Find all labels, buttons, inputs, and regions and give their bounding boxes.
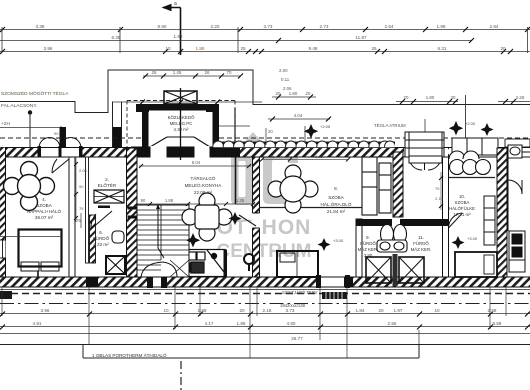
interior wall A — [69, 157, 89, 277]
wall tarsalgo/szoba8 — [252, 157, 261, 287]
svg-text:1.88: 1.88 — [198, 308, 207, 313]
wall szoba8/furdo9 — [356, 219, 362, 287]
door arc room4 — [52, 159, 69, 173]
bed szoba8 — [277, 251, 318, 277]
bump-out upper dim line — [143, 70, 243, 79]
svg-text:6.38: 6.38 — [112, 35, 121, 40]
svg-text:MELEG.PC: MELEG.PC — [170, 121, 193, 126]
svg-text:4.17: 4.17 — [205, 321, 214, 326]
text tarsalgo — [185, 175, 223, 195]
svg-text:3.73: 3.73 — [264, 24, 273, 29]
svg-text:90: 90 — [141, 198, 146, 203]
svg-text:MELEG.KONYHA: MELEG.KONYHA — [185, 183, 223, 188]
svg-text:2.84: 2.84 — [490, 24, 499, 29]
svg-text:TÉGLA ATRIUM: TÉGLA ATRIUM — [374, 123, 406, 128]
niche beam line szoba8 — [260, 207, 363, 209]
shower box 1 — [366, 257, 391, 283]
svg-text:SZOBA: SZOBA — [455, 200, 470, 205]
svg-text:SZOBA: SZOBA — [36, 203, 53, 208]
svg-text:+2.05: +2.05 — [320, 124, 331, 129]
balcony dashed line — [0, 137, 142, 139]
svg-text:9.: 9. — [366, 235, 370, 240]
svg-text:75: 75 — [435, 186, 440, 191]
svg-text:KÖZLEKEDŐ: KÖZLEKEDŐ — [168, 115, 195, 120]
room4 partition line — [0, 236, 62, 238]
svg-text:1.86: 1.86 — [237, 321, 246, 326]
svg-text:20: 20 — [378, 308, 384, 313]
text szoba10 — [449, 194, 475, 217]
svg-text:HÁL.ÓRA.DLÓ: HÁL.ÓRA.DLÓ — [321, 201, 352, 207]
svg-text:4.32 m²: 4.32 m² — [93, 242, 109, 247]
svg-text:11.: 11. — [418, 235, 424, 240]
dim labels line 2 — [112, 35, 367, 40]
svg-text:1.88: 1.88 — [437, 24, 446, 29]
svg-text:4.80: 4.80 — [287, 321, 296, 326]
table chairs room4 — [4, 162, 55, 211]
svg-text:1 OBLAS POROTHERM ÁTHIDALÓ: 1 OBLAS POROTHERM ÁTHIDALÓ — [92, 352, 167, 358]
bump-out dim line — [112, 100, 262, 105]
svg-text:2.05: 2.05 — [79, 168, 88, 173]
svg-text:2.00: 2.00 — [279, 68, 288, 73]
svg-text:MÁZ KER.: MÁZ KER. — [358, 247, 379, 252]
svg-text:2.56: 2.56 — [388, 321, 397, 326]
svg-text:25: 25 — [240, 46, 246, 51]
stair head triangle — [164, 91, 197, 104]
right room door arc — [508, 180, 522, 194]
top wall black middle section — [131, 146, 240, 158]
star markers — [304, 124, 318, 138]
svg-text:1.87: 1.87 — [394, 308, 403, 313]
star labels — [320, 121, 478, 243]
wardrobe circles szoba10 — [449, 151, 491, 175]
svg-text:2.18: 2.18 — [315, 154, 324, 159]
node column marker — [28, 110, 32, 147]
svg-text:SZINTJÁRÓ TERV: SZINTJÁRÓ TERV — [282, 290, 318, 295]
svg-text:FÜRDŐ: FÜRDŐ — [360, 241, 376, 246]
tall cabinet szoba10 — [484, 196, 495, 245]
line below band — [0, 289, 530, 291]
bed szoba10 — [455, 252, 497, 277]
svg-text:6.: 6. — [99, 230, 103, 235]
right room side wall — [507, 157, 509, 231]
svg-text:+2H: +2H — [1, 121, 10, 127]
svg-text:21.84 m²: 21.84 m² — [327, 209, 346, 214]
text eloter — [98, 177, 117, 188]
window right 2 — [452, 138, 498, 155]
text furdo6 — [93, 230, 110, 247]
wardrobe cabinet szoba8 — [362, 157, 391, 215]
svg-text:1.93: 1.93 — [174, 34, 183, 39]
extension verticals top — [2, 27, 528, 148]
stair dim row — [137, 198, 255, 206]
niche line szoba10 — [449, 177, 496, 179]
shelf unit right of cabinet — [409, 132, 442, 163]
bump-out door leaves — [150, 137, 210, 147]
dim labels line 1 — [36, 24, 499, 39]
wall szoba8/bath column — [393, 152, 403, 217]
washbasin bath6 — [112, 231, 124, 243]
interior wall B hatch — [90, 215, 96, 263]
door arc bath6 — [91, 211, 112, 229]
svg-text:9.48: 9.48 — [309, 46, 318, 51]
right top small dims — [272, 91, 530, 104]
svg-text:2.18: 2.18 — [263, 308, 272, 313]
svg-text:1.45: 1.45 — [173, 70, 182, 75]
text furdo11 — [411, 235, 432, 252]
svg-text:MÁZ KER.: MÁZ KER. — [411, 247, 432, 252]
svg-text:75: 75 — [79, 206, 84, 211]
shower box 2 — [399, 257, 424, 283]
svg-text:30: 30 — [451, 95, 456, 100]
dim line 5.04 tarsalgo — [139, 160, 251, 168]
svg-text:4.04: 4.04 — [294, 113, 303, 118]
svg-text:20: 20 — [500, 46, 506, 51]
railing dashed line — [0, 293, 530, 295]
svg-text:10: 10 — [165, 46, 171, 51]
svg-text:20: 20 — [404, 95, 409, 100]
text szoba8 — [321, 186, 352, 214]
svg-text:TÁRSALGÓ: TÁRSALGÓ — [190, 175, 215, 181]
pier A left — [60, 127, 67, 147]
ledge line left — [0, 127, 61, 129]
stairs — [137, 204, 189, 277]
ledge line mid — [213, 125, 250, 127]
dimension line 2 — [0, 38, 474, 43]
scalloped arcade strip — [213, 141, 396, 152]
svg-text:1.84: 1.84 — [356, 308, 365, 313]
door symbol q — [244, 254, 254, 271]
right mini dim 4.04 — [268, 113, 331, 122]
svg-text:20: 20 — [239, 308, 245, 313]
dimension line 1 — [0, 27, 530, 32]
annotation text left — [1, 90, 69, 127]
svg-text:+2.00: +2.00 — [465, 121, 476, 126]
door leaf tarsalgo — [239, 215, 256, 226]
bed room4 — [19, 230, 62, 278]
svg-text:85: 85 — [270, 154, 275, 159]
section arrow top — [163, 1, 181, 160]
svg-text:20: 20 — [306, 91, 311, 96]
dim chain szoba10 — [435, 172, 444, 210]
dimension line 3 — [0, 49, 530, 54]
svg-text:10: 10 — [163, 308, 169, 313]
svg-text:1.35: 1.35 — [236, 198, 245, 203]
centerline dash-dot — [0, 303, 530, 305]
svg-text:17.21 m²: 17.21 m² — [453, 212, 471, 217]
svg-text:36.07 m²: 36.07 m² — [35, 215, 54, 220]
bottom dimension line 2 — [0, 325, 530, 330]
svg-text:90: 90 — [54, 131, 59, 136]
svg-text:2.06: 2.06 — [283, 86, 292, 91]
table chairs tarsalgo — [182, 193, 232, 241]
bottom wall band — [0, 277, 530, 288]
table chairs szoba8 — [268, 165, 318, 213]
text KOZLEKEDO — [168, 115, 195, 132]
svg-text:75: 75 — [76, 218, 81, 223]
svg-text:10: 10 — [434, 308, 440, 313]
elevator shaft — [106, 256, 125, 274]
bottom dimension line 3 — [0, 333, 530, 335]
star marker tarsalgo — [186, 233, 200, 247]
door posts left — [38, 146, 83, 158]
svg-text:SZOBA: SZOBA — [328, 195, 345, 200]
svg-text:3.96: 3.96 — [44, 46, 53, 51]
kitchen wall stub — [224, 250, 228, 279]
right room fixtures top — [508, 145, 522, 158]
svg-text:3.96: 3.96 — [41, 308, 50, 313]
mini dim szoba8 — [260, 154, 350, 162]
outdoor stair middle — [322, 292, 347, 299]
svg-text:20: 20 — [276, 91, 281, 96]
svg-text:11.87: 11.87 — [355, 35, 367, 40]
svg-text:4.91: 4.91 — [33, 321, 42, 326]
svg-text:2.64: 2.64 — [385, 24, 394, 29]
bottom dim labels 2 — [33, 321, 502, 326]
svg-text:26.77: 26.77 — [291, 336, 303, 341]
svg-text:10.: 10. — [459, 194, 465, 199]
top wall band — [0, 147, 530, 158]
svg-text:2.: 2. — [105, 177, 109, 182]
svg-text:ELŐTÉR: ELŐTÉR — [98, 182, 117, 188]
small dim szoba8 — [266, 128, 273, 145]
text furdo9 — [358, 235, 379, 258]
svg-text:2.73: 2.73 — [320, 24, 329, 29]
dim chain wall A — [74, 158, 88, 222]
svg-text:20: 20 — [268, 129, 273, 134]
svg-text:2.20: 2.20 — [211, 24, 220, 29]
svg-text:+3.00: +3.00 — [467, 236, 478, 241]
svg-text:NAPPALI+HÁLÓ: NAPPALI+HÁLÓ — [27, 208, 62, 214]
pillar line tarsalgo — [235, 157, 237, 204]
left exterior wall — [0, 148, 6, 288]
dim labels line 3 — [44, 46, 506, 51]
svg-text:26: 26 — [152, 70, 157, 75]
pier B left — [113, 102, 122, 148]
svg-text:2.58: 2.58 — [488, 308, 497, 313]
svg-text:+3.00: +3.00 — [333, 238, 344, 243]
dashed void outline — [127, 101, 235, 148]
svg-text:8.: 8. — [334, 186, 338, 191]
svg-text:0.11: 0.11 — [281, 77, 290, 82]
svg-text:8.80: 8.80 — [158, 24, 167, 29]
svg-text:3.73: 3.73 — [286, 308, 295, 313]
svg-text:2.10: 2.10 — [435, 196, 444, 201]
svg-text:1.88: 1.88 — [196, 46, 205, 51]
svg-text:5.04: 5.04 — [192, 160, 201, 165]
svg-text:FÜRDŐ: FÜRDŐ — [93, 235, 110, 241]
entry box X — [94, 190, 124, 203]
svg-text:1.88: 1.88 — [165, 198, 174, 203]
outdoor stair left — [0, 291, 12, 299]
svg-text:70: 70 — [227, 70, 232, 75]
dim texts right corner stack — [279, 68, 292, 91]
roof outline step — [0, 70, 530, 113]
title table — [0, 345, 530, 359]
svg-text:6.31: 6.31 — [438, 46, 447, 51]
svg-text:3.38: 3.38 — [36, 24, 45, 29]
dashdot below — [180, 361, 182, 390]
svg-text:SZOMSZÉD MÖGÖTTI TÉGLA: SZOMSZÉD MÖGÖTTI TÉGLA — [1, 90, 69, 97]
svg-text:5.58: 5.58 — [493, 321, 502, 326]
washer column right — [509, 231, 525, 272]
svg-text:FAL ALACSONY.: FAL ALACSONY. — [1, 103, 37, 109]
svg-text:90: 90 — [79, 184, 84, 189]
kitchen counter line — [185, 250, 225, 277]
bottom extension lines — [2, 287, 506, 358]
svg-text:HÁLÓFÜLKE: HÁLÓFÜLKE — [449, 206, 475, 211]
svg-text:26: 26 — [205, 70, 210, 75]
watermark logo C-house — [231, 132, 298, 205]
dim 75 room4 — [76, 213, 81, 228]
window right 1 wardrobe — [405, 132, 444, 170]
svg-text:FÜRDŐ: FÜRDŐ — [413, 241, 429, 246]
svg-text:4.: 4. — [42, 197, 46, 202]
bath 9/11 fixtures wc — [377, 225, 407, 253]
right heavy wall — [497, 148, 507, 287]
bath block top wall — [356, 219, 448, 226]
svg-text:4.30 m²: 4.30 m² — [174, 127, 189, 132]
door arcs left — [39, 138, 81, 149]
door arc szoba10 — [448, 213, 462, 228]
thresholds bottom — [86, 275, 353, 288]
stair wall hatch — [127, 148, 138, 283]
wall furdo11/szoba10 — [443, 157, 449, 283]
svg-text:a: a — [174, 1, 177, 7]
svg-text:1.80: 1.80 — [289, 91, 298, 96]
svg-text:2.26: 2.26 — [516, 95, 525, 100]
bottom dimension line 1 — [0, 312, 530, 317]
window right 3 — [503, 139, 530, 158]
svg-text:1.80: 1.80 — [426, 95, 435, 100]
text room4 — [27, 197, 62, 220]
bump-out walls — [136, 104, 219, 148]
bottom dim labels 1 — [41, 308, 497, 313]
svg-text:25: 25 — [371, 46, 377, 51]
